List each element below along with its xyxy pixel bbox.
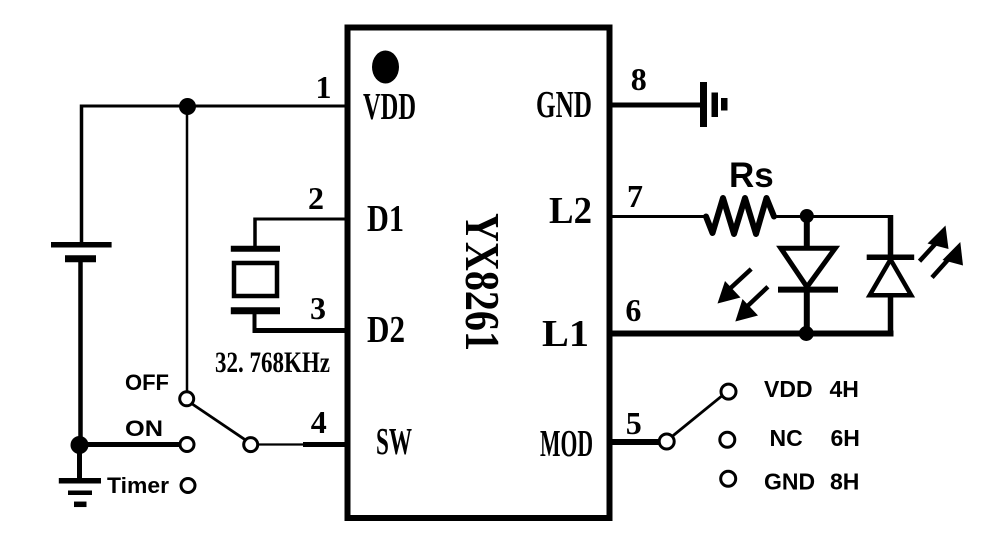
LED D2 triangle (870, 260, 912, 296)
wire battery bottom vertical (78, 262, 83, 446)
svg-text:7: 7 (627, 178, 643, 214)
svg-text:2: 2 (308, 180, 324, 216)
op-amp U1 IC body YX8261 (348, 28, 610, 519)
svg-text:5: 5 (626, 405, 642, 441)
wire ON to junction (80, 442, 181, 447)
switch S1 OFF contact (180, 392, 194, 406)
wire pin3 D2 horizontal (253, 328, 348, 333)
svg-text:D1: D1 (367, 198, 404, 240)
crystal X1 body (234, 263, 277, 296)
svg-text:4H: 4H (830, 376, 859, 402)
svg-text:4: 4 (311, 404, 327, 440)
svg-text:1: 1 (316, 69, 332, 105)
LED D2 emission arrow 2 (932, 242, 963, 278)
switch S2 NC contact (720, 432, 735, 447)
switch S2 GND contact (721, 471, 736, 486)
svg-text:NC: NC (770, 425, 803, 451)
wire pin8 GND horizontal (610, 103, 700, 108)
wire pin7 L2 horizontal (610, 215, 707, 218)
LED D1 triangle (781, 248, 835, 287)
svg-text:ON: ON (125, 416, 163, 441)
wire ground stub (77, 445, 82, 479)
svg-text:Rs: Rs (729, 156, 774, 195)
LED D1 emission arrow 2 (735, 287, 768, 322)
node junction dot top (179, 98, 196, 115)
switch S2 VDD contact (721, 384, 736, 399)
switch S1 ON contact (180, 438, 194, 452)
LED D1 emission arrow 1 (718, 269, 752, 304)
node junction dot bottom-left (71, 436, 89, 454)
wire pin6 L1 horizontal (610, 331, 894, 337)
pin 1 index dot (372, 51, 399, 84)
wire LED2 top vertical (888, 215, 894, 258)
LED D2 emission arrow 1 (920, 226, 949, 262)
svg-text:GND: GND (536, 84, 592, 126)
switch S2 arm (672, 396, 722, 437)
svg-text:8: 8 (631, 61, 647, 97)
svg-text:OFF: OFF (125, 370, 169, 395)
wire LED1 anode stub (804, 216, 810, 250)
svg-text:6H: 6H (831, 425, 860, 451)
resistor Rs (706, 198, 774, 234)
svg-text:L2: L2 (549, 190, 592, 232)
ground symbol right (700, 82, 728, 127)
wire crystal bottom vertical (253, 313, 257, 331)
wire LED1 cathode stub (804, 290, 810, 334)
svg-text:Timer: Timer (107, 473, 169, 498)
crystal X1 bottom plate (231, 307, 280, 314)
svg-text:3: 3 (310, 290, 326, 326)
svg-text:YX8261: YX8261 (455, 213, 510, 351)
svg-text:D2: D2 (367, 309, 405, 351)
svg-text:MOD: MOD (540, 423, 593, 465)
svg-text:32. 768KHz: 32. 768KHz (215, 346, 330, 379)
wire pin4 SW thick (303, 442, 347, 447)
ground symbol bottom-left (59, 481, 101, 505)
wire pin5 MOD horizontal (610, 439, 660, 445)
wire battery top vertical (80, 105, 84, 243)
wire switch feed vertical (186, 106, 189, 392)
crystal X1 top plate (231, 246, 280, 252)
svg-text:6: 6 (625, 292, 641, 328)
switch S1 arm (192, 404, 246, 441)
switch S2 common contact (659, 434, 674, 449)
wire pin2 D1 horizontal (255, 218, 347, 221)
wire pin1 VDD horizontal (82, 105, 347, 108)
node junction dot on L1 line (799, 326, 814, 341)
switch S1 Timer contact (181, 479, 195, 493)
svg-text:GND: GND (764, 469, 815, 495)
wire resistor to corner (774, 215, 891, 218)
LED D2 cathode bar (867, 254, 915, 260)
battery BT1 negative plate (65, 255, 96, 262)
svg-text:VDD: VDD (764, 376, 813, 402)
svg-text:8H: 8H (830, 469, 859, 495)
battery BT1 positive plate (51, 242, 112, 248)
svg-text:L1: L1 (542, 313, 589, 355)
svg-text:SW: SW (376, 421, 412, 463)
wire LED2 bottom vertical (888, 295, 894, 334)
wire pin4 SW thin (258, 443, 305, 445)
wire crystal top vertical (253, 218, 257, 248)
switch S1 common contact (244, 438, 258, 452)
svg-text:VDD: VDD (363, 86, 416, 128)
LED D1 cathode bar (778, 287, 838, 293)
node junction dot on L2 line (800, 209, 814, 223)
